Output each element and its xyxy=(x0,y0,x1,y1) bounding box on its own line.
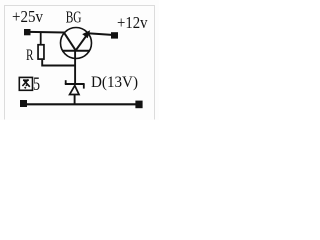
transistor emitter arrowhead xyxy=(82,30,90,38)
terminal square +12v xyxy=(111,32,118,38)
svg-text:BG: BG xyxy=(66,7,82,26)
wire +25v to transistor collector side xyxy=(29,31,65,34)
zener right tab down xyxy=(83,84,85,89)
wire transistor emitter side to +12v xyxy=(88,33,113,35)
wire resistor bottom to base node xyxy=(42,60,75,66)
transistor BG circle xyxy=(61,28,92,59)
svg-text:+12v: +12v xyxy=(117,13,148,32)
border frame xyxy=(5,6,155,120)
transistor base bar xyxy=(62,50,89,52)
svg-text:+25v: +25v xyxy=(12,7,44,26)
transistor collector line xyxy=(64,33,76,51)
transistor emitter line xyxy=(76,33,88,50)
bottom rail wire xyxy=(26,103,136,105)
terminal square bottom-left xyxy=(20,100,27,107)
resistor R body xyxy=(38,45,44,59)
zener triangle anode xyxy=(70,86,79,95)
terminal square +25v xyxy=(24,29,31,35)
svg-text:5: 5 xyxy=(33,75,40,95)
zener diode D cathode bar xyxy=(65,83,85,85)
wire resistor top lead xyxy=(40,32,42,44)
label figure 5 (图5) xyxy=(19,77,32,90)
svg-text:R: R xyxy=(26,47,34,64)
zener left tab up xyxy=(65,80,67,84)
wire base vertical to zener xyxy=(74,51,76,84)
wire zener to bottom rail xyxy=(74,95,76,105)
terminal square bottom-right xyxy=(135,101,142,109)
svg-text:D(13V): D(13V) xyxy=(91,74,138,91)
